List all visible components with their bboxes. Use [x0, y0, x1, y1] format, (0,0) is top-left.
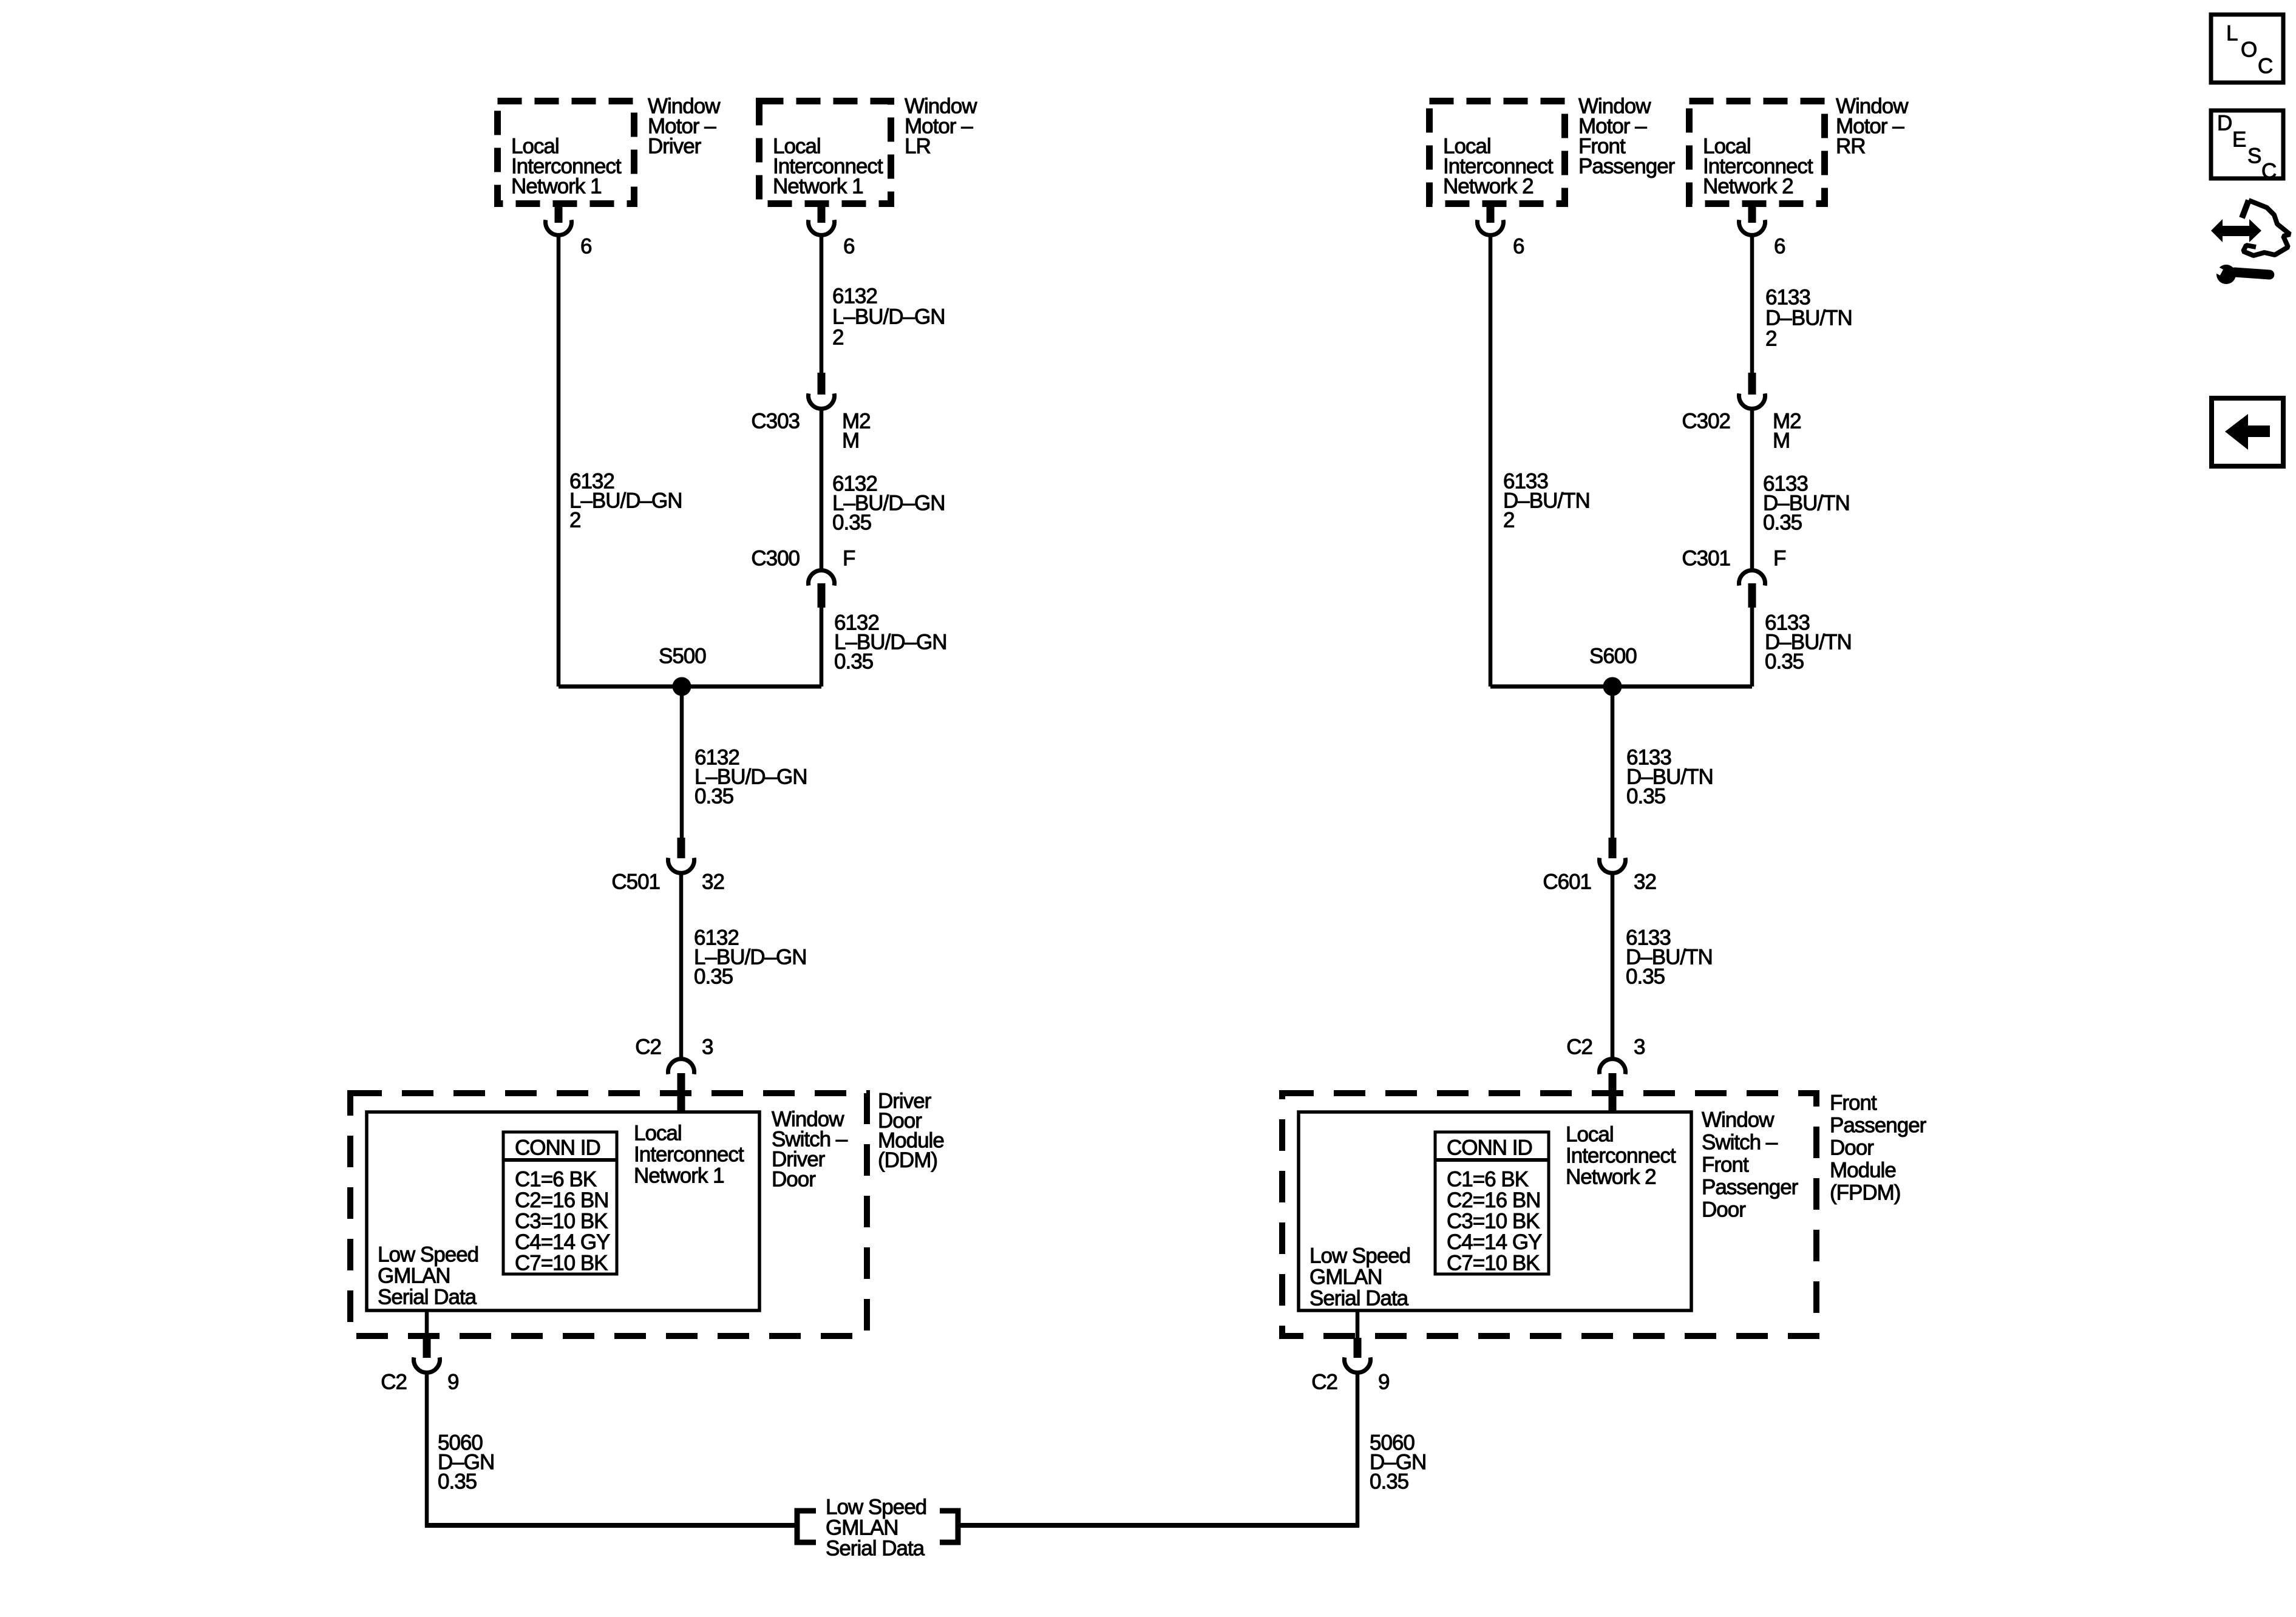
- svg-text:Window: Window: [1702, 1108, 1775, 1132]
- svg-text:2: 2: [1503, 509, 1514, 532]
- DDM inner solid box: [367, 1112, 759, 1310]
- wire label 6132 L-BU/D-GN 0.35: [695, 746, 807, 808]
- svg-text:C501: C501: [611, 870, 660, 894]
- svg-text:S: S: [2247, 144, 2261, 168]
- svg-text:Interconnect: Interconnect: [634, 1143, 744, 1167]
- svg-text:Local: Local: [1566, 1123, 1614, 1147]
- wire label 6132 L-BU/D-GN 0.35: [832, 472, 945, 535]
- svg-text:0.35: 0.35: [1370, 1470, 1408, 1494]
- svg-text:C2=16 BN: C2=16 BN: [515, 1188, 608, 1212]
- svg-text:L–BU/D–GN: L–BU/D–GN: [569, 489, 682, 513]
- svg-text:C: C: [2258, 55, 2272, 78]
- label Window Switch - Driver Door: [772, 1108, 848, 1192]
- svg-text:6: 6: [580, 235, 591, 259]
- window motor RR box text: [1703, 135, 1813, 198]
- svg-text:GMLAN: GMLAN: [378, 1264, 450, 1288]
- svg-text:C1=6 BK: C1=6 BK: [1447, 1168, 1529, 1192]
- wire label 6133 D-BU/TN 2: [1503, 470, 1590, 532]
- svg-text:0.35: 0.35: [832, 511, 871, 535]
- wire label 6132 L-BU/D-GN 0.35: [834, 611, 947, 674]
- svg-text:S500: S500: [659, 645, 706, 668]
- connector C302: [1739, 373, 1765, 408]
- label Window Motor - RR: [1836, 95, 1909, 158]
- wire 6133 from RR motor: [1750, 235, 1754, 375]
- label Window Motor - LR: [905, 95, 977, 158]
- svg-text:C7=10 BK: C7=10 BK: [1447, 1252, 1540, 1275]
- svg-text:0.35: 0.35: [695, 785, 733, 808]
- connector C601: [1600, 838, 1626, 873]
- connector end view icon (double arrow, connector outline, wrench): [2211, 200, 2290, 284]
- wire 6133 C301 to S600: [1750, 608, 1754, 686]
- svg-text:6: 6: [1774, 235, 1785, 259]
- wire FPDM to C2 pin9: [1356, 1310, 1360, 1339]
- svg-text:C300: C300: [751, 547, 800, 571]
- svg-text:(FPDM): (FPDM): [1830, 1181, 1900, 1205]
- pin 6 label: [580, 235, 591, 259]
- FPDM module box (dashed): [1282, 1093, 1816, 1336]
- wire 6132 from driver motor: [557, 235, 561, 686]
- wire label 6132 L-BU/D-GN 0.35: [694, 926, 807, 989]
- wire 6132 S500 to C501: [680, 686, 684, 840]
- label Window Motor - Driver: [648, 95, 721, 158]
- svg-text:Passenger: Passenger: [1702, 1176, 1799, 1199]
- wire label 6133 D-BU/TN 0.35: [1763, 472, 1850, 535]
- wire label 6132 L-BU/D-GN 2: [832, 285, 945, 350]
- splice S500 crossbar: [559, 685, 821, 689]
- svg-text:E: E: [2232, 128, 2246, 152]
- pin F label: [843, 547, 855, 571]
- svg-text:3: 3: [702, 1036, 713, 1059]
- CONN ID header: [1447, 1136, 1532, 1160]
- connector pin, window motor driver: [546, 204, 572, 235]
- label C2: [1566, 1036, 1592, 1059]
- svg-text:C2: C2: [635, 1036, 661, 1059]
- connector C301: [1739, 571, 1765, 608]
- wire label 5060 D-GN 0.35: [1370, 1431, 1426, 1494]
- connector C2 (FPDM pin 3): [1600, 1059, 1626, 1111]
- wire label 6133 D-BU/TN 2: [1765, 286, 1852, 351]
- connector C501: [668, 838, 695, 873]
- svg-text:Network 1: Network 1: [634, 1164, 724, 1188]
- bus label Low Speed GMLAN Serial Data: [826, 1496, 926, 1561]
- svg-text:Module: Module: [1830, 1159, 1896, 1182]
- svg-text:C1=6 BK: C1=6 BK: [515, 1168, 597, 1192]
- window motor RR box (dashed): [1690, 101, 1825, 204]
- bus wire to FPDM side: [958, 1523, 1359, 1528]
- window motor LR box text: [773, 135, 883, 198]
- svg-text:C2: C2: [1311, 1371, 1337, 1394]
- pin M2 / M labels: [1773, 410, 1801, 453]
- svg-text:C601: C601: [1543, 870, 1591, 894]
- CONN ID rows: [515, 1168, 610, 1275]
- splice S500 junction dot: [673, 677, 691, 696]
- connector C300: [808, 571, 834, 608]
- svg-text:Front: Front: [1702, 1153, 1749, 1177]
- svg-text:C3=10 BK: C3=10 BK: [515, 1210, 608, 1233]
- connector C303: [808, 373, 834, 408]
- DDM LIN1 text: [634, 1122, 744, 1188]
- svg-text:0.35: 0.35: [1765, 650, 1804, 674]
- wire DDM to C2 pin9: [425, 1310, 429, 1339]
- svg-text:D–BU/TN: D–BU/TN: [1765, 307, 1852, 330]
- label C601: [1543, 870, 1591, 894]
- label C2: [381, 1371, 407, 1394]
- svg-text:C7=10 BK: C7=10 BK: [515, 1252, 608, 1275]
- label C2: [1311, 1371, 1337, 1394]
- label C300: [751, 547, 800, 571]
- svg-text:C3=10 BK: C3=10 BK: [1447, 1210, 1540, 1233]
- connector pin, window motor LR: [808, 204, 834, 235]
- pin M2 / M labels: [842, 410, 871, 453]
- back arrow icon box: [2212, 398, 2283, 466]
- connector pin, window motor front passenger: [1478, 204, 1504, 235]
- svg-text:Door: Door: [1830, 1136, 1874, 1160]
- svg-text:C2: C2: [381, 1371, 407, 1394]
- svg-text:L–BU/D–GN: L–BU/D–GN: [832, 305, 945, 329]
- svg-text:Serial Data: Serial Data: [1309, 1287, 1409, 1310]
- wire label 6133 D-BU/TN 0.35: [1626, 746, 1713, 808]
- svg-text:Local: Local: [634, 1122, 682, 1145]
- svg-text:M: M: [842, 429, 859, 453]
- svg-text:Serial Data: Serial Data: [826, 1537, 925, 1561]
- svg-text:Network 1: Network 1: [773, 175, 863, 198]
- pin 6 label: [1513, 235, 1524, 259]
- svg-text:Network 1: Network 1: [511, 175, 602, 198]
- splice S600 crossbar: [1490, 685, 1752, 689]
- svg-text:Network 2: Network 2: [1443, 175, 1533, 198]
- svg-text:C301: C301: [1682, 547, 1730, 571]
- svg-text:32: 32: [702, 870, 724, 894]
- svg-text:2: 2: [832, 326, 843, 350]
- svg-text:CONN ID: CONN ID: [515, 1136, 600, 1160]
- pin 9 label: [447, 1371, 458, 1394]
- FPDM inner solid box: [1299, 1112, 1691, 1310]
- svg-text:9: 9: [1378, 1371, 1389, 1394]
- label Window Motor - Front Passenger: [1578, 95, 1676, 178]
- pin 6 label: [843, 235, 854, 259]
- CONN ID header: [515, 1136, 600, 1160]
- svg-text:L: L: [2226, 22, 2238, 46]
- window motor driver box text: [511, 135, 622, 198]
- svg-text:0.35: 0.35: [1626, 785, 1665, 808]
- label S500: [659, 645, 706, 668]
- connector pin, window motor RR: [1739, 204, 1765, 235]
- wire 6132 C303 to C300: [820, 409, 824, 571]
- svg-text:C2=16 BN: C2=16 BN: [1447, 1188, 1540, 1212]
- wire label 6133 D-BU/TN 0.35: [1765, 611, 1852, 674]
- svg-text:0.35: 0.35: [834, 650, 873, 674]
- label C2: [635, 1036, 661, 1059]
- CONN ID rows: [1447, 1168, 1542, 1275]
- svg-text:6: 6: [1513, 235, 1524, 259]
- svg-text:LR: LR: [905, 135, 931, 158]
- svg-text:0.35: 0.35: [1763, 511, 1802, 535]
- svg-text:3: 3: [1634, 1036, 1645, 1059]
- svg-text:0.35: 0.35: [694, 965, 733, 989]
- svg-text:Low Speed: Low Speed: [1309, 1244, 1410, 1268]
- wire 6132 from LR motor: [820, 235, 824, 375]
- wire 6133 from front passenger motor: [1489, 235, 1493, 686]
- svg-text:6: 6: [843, 235, 854, 259]
- svg-text:C4=14 GY: C4=14 GY: [1447, 1230, 1542, 1254]
- svg-text:C: C: [2261, 160, 2276, 183]
- pin F label: [1773, 547, 1785, 571]
- wire label 6132 L-BU/D-GN 2: [569, 470, 682, 532]
- wire label 5060 D-GN 0.35: [438, 1431, 494, 1494]
- connector C2 (FPDM pin 9): [1345, 1338, 1371, 1372]
- svg-text:Switch –: Switch –: [1702, 1131, 1778, 1154]
- pin 6 label: [1774, 235, 1785, 259]
- svg-text:Passenger: Passenger: [1578, 155, 1676, 178]
- wire 6133 C601 to C2: [1611, 873, 1615, 1059]
- connector C2 (DDM pin 9): [413, 1338, 440, 1372]
- FPDM Low Speed GMLAN text: [1309, 1244, 1410, 1310]
- pin 9 label: [1378, 1371, 1389, 1394]
- svg-text:RR: RR: [1836, 135, 1866, 158]
- svg-text:GMLAN: GMLAN: [1309, 1266, 1382, 1289]
- svg-text:C4=14 GY: C4=14 GY: [515, 1230, 610, 1254]
- bus bracket right: [940, 1511, 958, 1542]
- pin 3 label: [1634, 1036, 1645, 1059]
- svg-text:2: 2: [1765, 327, 1776, 351]
- wire 6132 C501 to C2: [679, 873, 684, 1059]
- svg-text:Door: Door: [1702, 1198, 1746, 1222]
- svg-text:C303: C303: [751, 410, 800, 433]
- pin 32 label: [1634, 870, 1656, 894]
- window motor driver box (dashed): [498, 101, 634, 204]
- label S600: [1589, 645, 1637, 668]
- svg-text:(DDM): (DDM): [878, 1148, 937, 1172]
- svg-text:Network 2: Network 2: [1566, 1165, 1656, 1189]
- wire 6133 S600 to C601: [1611, 686, 1615, 840]
- svg-text:2: 2: [569, 509, 580, 532]
- label C301: [1682, 547, 1730, 571]
- connector C2 (DDM pin 3): [668, 1059, 695, 1111]
- label C303: [751, 410, 800, 433]
- CONN ID table (FPDM): [1435, 1132, 1549, 1274]
- svg-text:F: F: [843, 547, 855, 571]
- svg-text:Low Speed: Low Speed: [378, 1243, 478, 1267]
- svg-text:0.35: 0.35: [438, 1470, 477, 1494]
- DESC icon box: [2211, 110, 2283, 183]
- svg-text:32: 32: [1634, 870, 1656, 894]
- svg-text:9: 9: [447, 1371, 458, 1394]
- svg-text:Interconnect: Interconnect: [1566, 1144, 1676, 1168]
- svg-text:C302: C302: [1682, 410, 1730, 433]
- svg-text:Passenger: Passenger: [1830, 1114, 1927, 1137]
- label Driver Door Module (DDM): [878, 1090, 944, 1173]
- wire label 6133 D-BU/TN 0.35: [1626, 926, 1713, 989]
- window motor front passenger box text: [1443, 135, 1554, 198]
- svg-text:Front: Front: [1830, 1091, 1877, 1115]
- pin 32 label: [702, 870, 724, 894]
- svg-text:0.35: 0.35: [1626, 965, 1665, 989]
- label Window Switch - Front Passenger Door: [1702, 1108, 1799, 1222]
- wire 5060 down (right): [1356, 1373, 1360, 1527]
- label Front Passenger Door Module (FPDM): [1830, 1091, 1927, 1205]
- wire 6133 C302 to C301: [1750, 409, 1754, 571]
- LOC icon box: [2211, 15, 2283, 83]
- svg-text:F: F: [1773, 547, 1785, 571]
- window motor LR box (dashed): [759, 101, 891, 204]
- label C501: [611, 870, 660, 894]
- svg-text:D: D: [2217, 112, 2232, 135]
- svg-text:C2: C2: [1566, 1036, 1592, 1059]
- svg-text:Network 2: Network 2: [1703, 175, 1793, 198]
- svg-text:O: O: [2241, 38, 2257, 62]
- svg-text:S600: S600: [1589, 645, 1637, 668]
- window motor front passenger box (dashed): [1430, 101, 1565, 204]
- FPDM LIN2 text: [1566, 1123, 1676, 1189]
- label C302: [1682, 410, 1730, 433]
- svg-text:D–BU/TN: D–BU/TN: [1503, 489, 1590, 513]
- pin 3 label: [702, 1036, 713, 1059]
- DDM module box (dashed): [350, 1093, 867, 1336]
- bus bracket left: [797, 1511, 816, 1542]
- wire 5060 to bus: [425, 1523, 797, 1528]
- CONN ID table (DDM): [503, 1132, 617, 1274]
- svg-text:Door: Door: [772, 1168, 816, 1192]
- wire 5060 down: [425, 1373, 429, 1527]
- svg-text:M: M: [1773, 429, 1790, 453]
- svg-text:CONN ID: CONN ID: [1447, 1136, 1532, 1160]
- DDM Low Speed GMLAN text: [378, 1243, 478, 1309]
- svg-text:Driver: Driver: [648, 135, 702, 158]
- splice S600 junction dot: [1603, 677, 1622, 696]
- wire 6132 C300 to S500: [820, 608, 824, 686]
- svg-text:Serial Data: Serial Data: [378, 1286, 477, 1309]
